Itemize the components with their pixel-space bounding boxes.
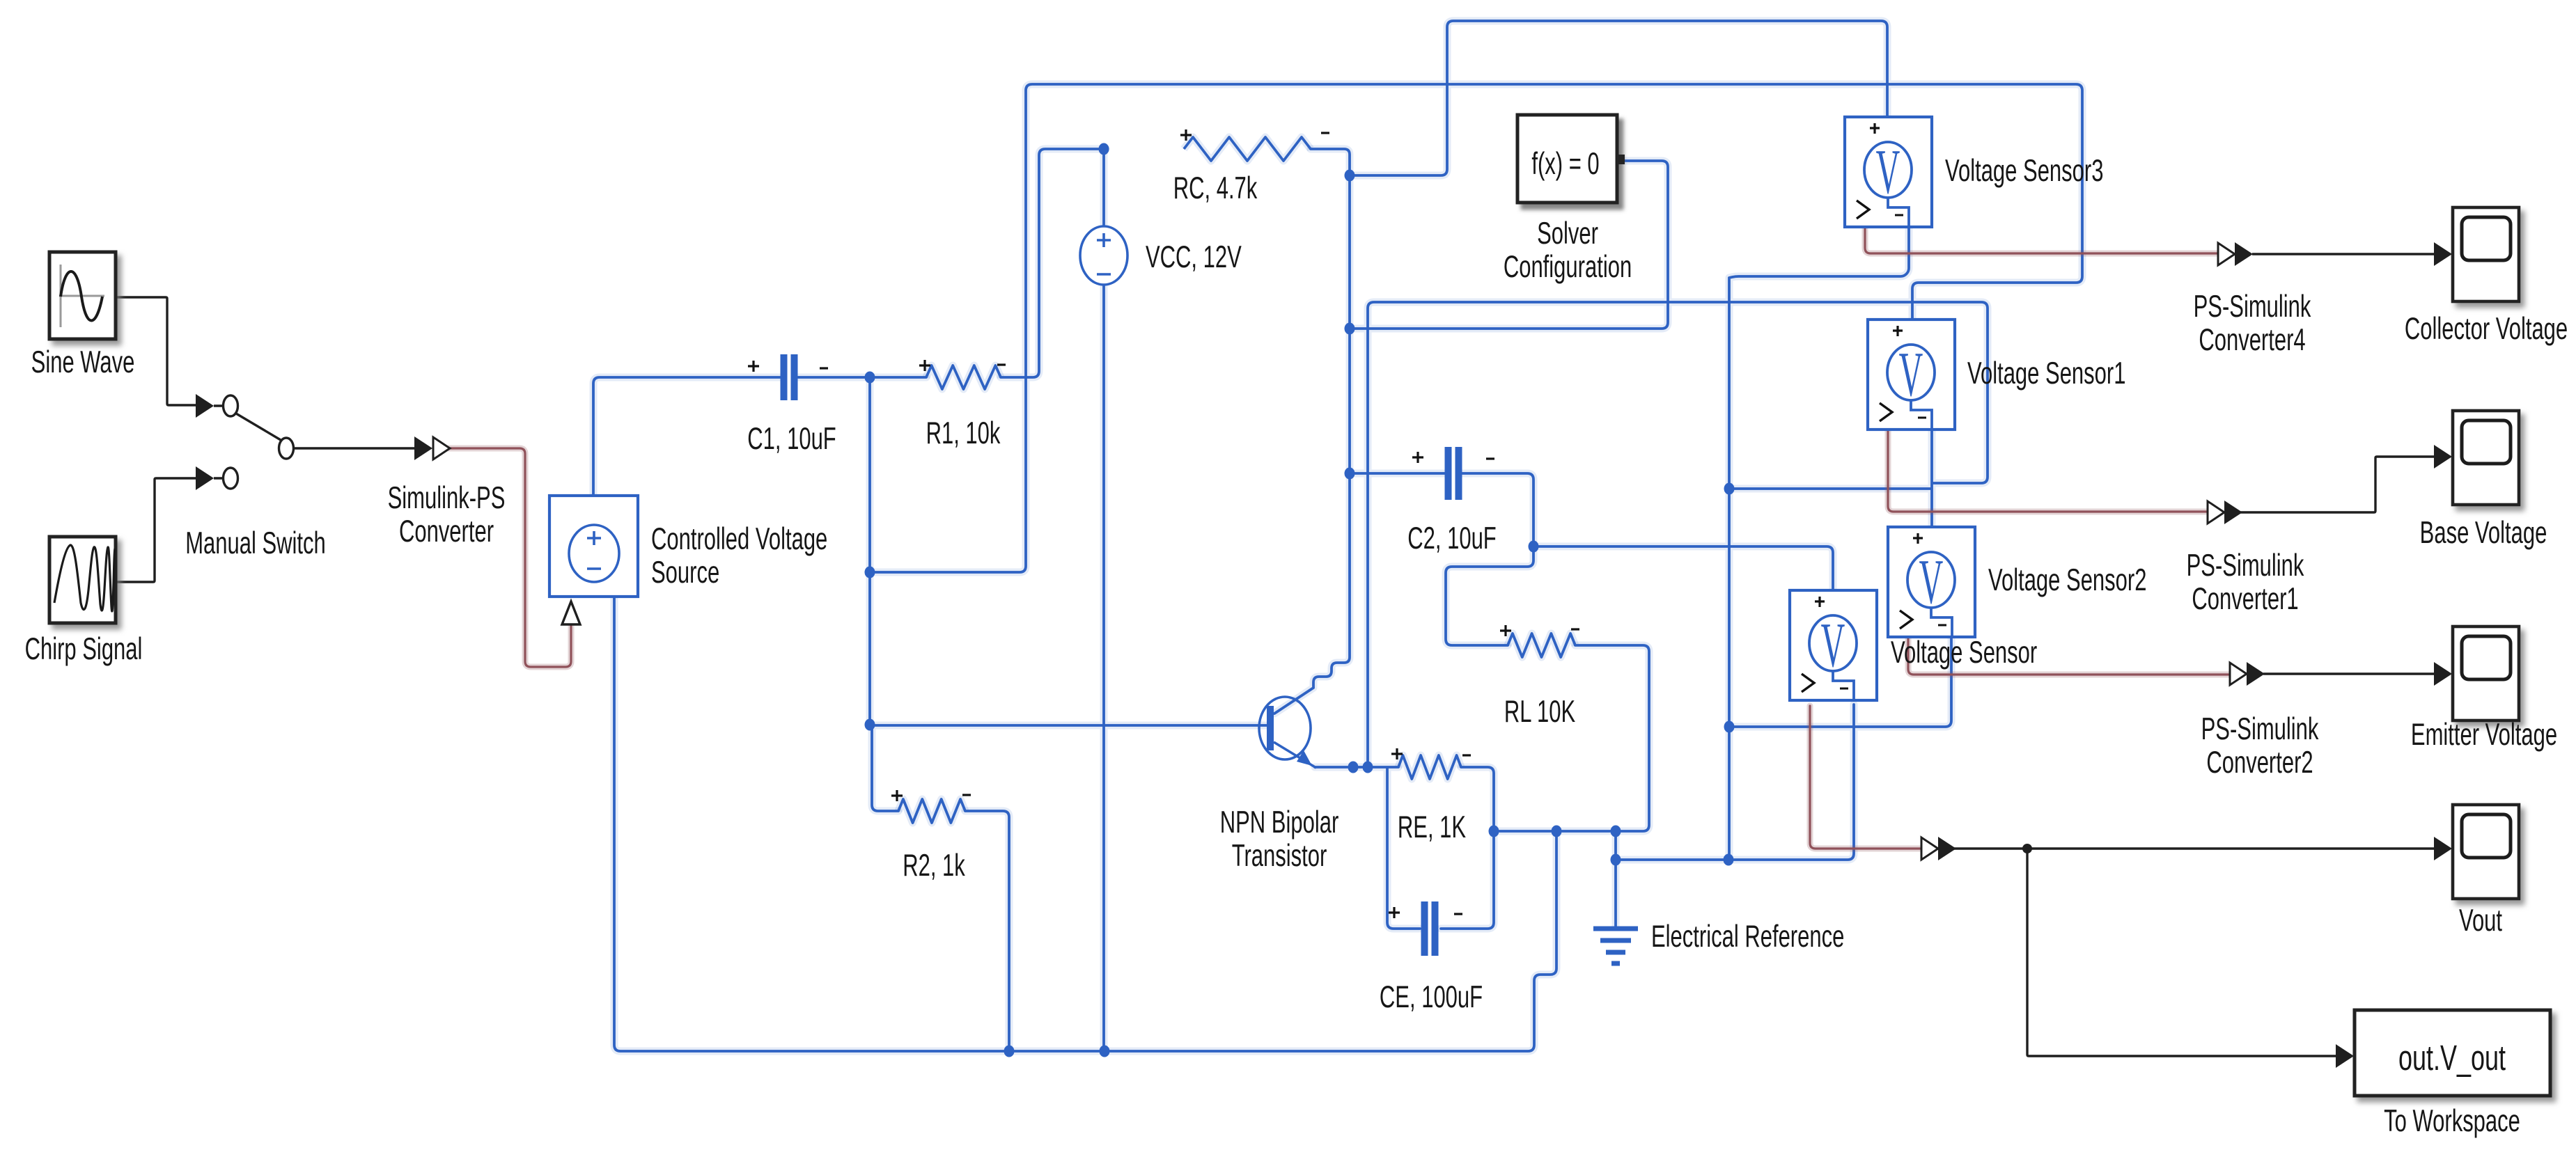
svg-text:Converter1: Converter1 (2192, 583, 2298, 617)
svg-text:Base Voltage: Base Voltage (2420, 517, 2547, 551)
svg-text:Voltage Sensor: Voltage Sensor (1891, 636, 2037, 670)
svg-text:out.V_out: out.V_out (2398, 1039, 2506, 1078)
svg-text:Source: Source (651, 556, 719, 590)
svg-text:C2, 10uF: C2, 10uF (1407, 522, 1496, 556)
svg-text:R1, 10k: R1, 10k (926, 417, 1001, 451)
svg-text:Vout: Vout (2459, 904, 2502, 938)
svg-text:PS-Simulink: PS-Simulink (2201, 713, 2320, 747)
svg-text:V: V (1821, 610, 1845, 680)
svg-text:Transistor: Transistor (1232, 840, 1327, 874)
svg-text:Converter: Converter (399, 515, 494, 549)
svg-text:To Workspace: To Workspace (2384, 1105, 2520, 1139)
svg-text:CE, 100uF: CE, 100uF (1380, 981, 1483, 1015)
svg-text:NPN Bipolar: NPN Bipolar (1220, 806, 1339, 840)
svg-text:Voltage Sensor1: Voltage Sensor1 (1967, 357, 2125, 391)
svg-text:R2, 1k: R2, 1k (903, 849, 965, 883)
svg-text:Voltage Sensor2: Voltage Sensor2 (1988, 564, 2146, 598)
svg-text:Chirp Signal: Chirp Signal (25, 633, 143, 667)
svg-text:f(x) = 0: f(x) = 0 (1531, 148, 1599, 182)
svg-text:Collector Voltage: Collector Voltage (2405, 313, 2568, 347)
svg-text:Controlled Voltage: Controlled Voltage (651, 523, 827, 557)
svg-text:Simulink-PS: Simulink-PS (388, 482, 506, 516)
svg-text:PS-Simulink: PS-Simulink (2187, 549, 2305, 583)
svg-text:V: V (1919, 546, 1944, 617)
svg-text:C1, 10uF: C1, 10uF (747, 423, 836, 457)
svg-text:Sine Wave: Sine Wave (31, 346, 135, 380)
svg-text:Configuration: Configuration (1504, 251, 1632, 285)
svg-text:Solver: Solver (1537, 217, 1598, 251)
svg-text:Converter4: Converter4 (2199, 324, 2305, 358)
svg-text:PS-Simulink: PS-Simulink (2194, 290, 2312, 324)
svg-text:RL 10K: RL 10K (1504, 695, 1575, 730)
svg-text:VCC, 12V: VCC, 12V (1146, 241, 1242, 275)
svg-text:Emitter Voltage: Emitter Voltage (2411, 718, 2557, 753)
svg-text:RC, 4.7k: RC, 4.7k (1173, 172, 1258, 206)
svg-text:RE, 1K: RE, 1K (1398, 811, 1466, 845)
svg-text:Electrical Reference: Electrical Reference (1651, 920, 1844, 954)
svg-text:V: V (1876, 136, 1900, 207)
svg-text:Voltage Sensor3: Voltage Sensor3 (1945, 155, 2103, 189)
svg-text:Converter2: Converter2 (2206, 746, 2313, 780)
svg-text:V: V (1899, 339, 1923, 409)
svg-text:Manual Switch: Manual Switch (185, 527, 326, 561)
